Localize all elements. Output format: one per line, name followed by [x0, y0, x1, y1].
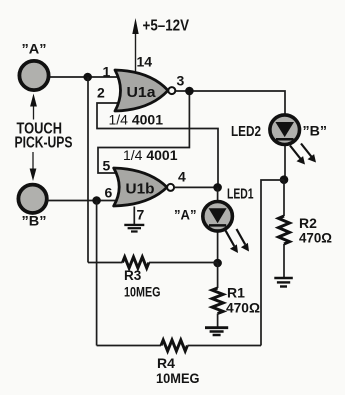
LED2: [231, 114, 327, 180]
svg-text:U1b: U1b: [126, 181, 155, 198]
output bubble U1b pin 4: [167, 184, 174, 191]
wire pin 4 output: [175, 186, 219, 188]
NOR gate U1a: [115, 70, 168, 111]
svg-text:”A”: ”A”: [22, 41, 47, 57]
node pin 4 / LED1 junction: [213, 183, 222, 192]
svg-text:7: 7: [137, 207, 145, 223]
svg-text:PICK-UPS: PICK-UPS: [15, 135, 73, 152]
ground (R1): [205, 328, 228, 335]
wire pin 7 to ground: [133, 207, 135, 225]
wire pin 6 from pickup B: [47, 200, 121, 202]
wire B vertical down to R4: [96, 201, 98, 346]
svg-text:1/4 4001: 1/4 4001: [123, 147, 178, 163]
resistor R4 10MEG: [97, 340, 261, 386]
svg-text:1/4 4001: 1/4 4001: [109, 112, 164, 128]
svg-text:”B”: ”B”: [303, 123, 328, 139]
svg-text:R3: R3: [124, 268, 142, 283]
node junction A: [83, 73, 92, 82]
node pin 3 junction: [185, 87, 194, 96]
svg-text:3: 3: [177, 73, 185, 89]
svg-text:4: 4: [178, 169, 186, 185]
svg-text:10MEG: 10MEG: [124, 285, 161, 300]
svg-text:”B”: ”B”: [22, 213, 47, 229]
svg-text:6: 6: [105, 185, 113, 201]
svg-text:470Ω: 470Ω: [226, 300, 260, 316]
ground (pin 7): [124, 225, 144, 232]
resistor R3 10MEG: [88, 257, 218, 300]
svg-text:5: 5: [103, 158, 111, 174]
svg-text:R1: R1: [227, 285, 245, 301]
wire cross-coupling pin3 to pin5: [98, 91, 189, 173]
LED1: [174, 187, 254, 264]
output bubble U1a pin 3: [168, 87, 175, 94]
svg-text:1: 1: [103, 64, 111, 80]
svg-text:10MEG: 10MEG: [156, 370, 200, 386]
label TOUCH PICK-UPS: [15, 121, 73, 152]
resistor R2 470 ohm: [279, 180, 333, 278]
ground (R2): [274, 278, 293, 287]
wire pin 2 feedback loop: [97, 103, 218, 187]
arrow up to pickup A: [30, 94, 37, 120]
svg-text:14: 14: [137, 54, 153, 70]
resistor R1 470 ohm: [212, 263, 260, 327]
node junction B: [92, 196, 101, 205]
svg-text:”A”: ”A”: [174, 207, 197, 223]
touch pickup B: [18, 185, 46, 229]
NOR gate U1b: [114, 168, 167, 206]
svg-text:470Ω: 470Ω: [299, 230, 332, 246]
touch pickup A: [19, 41, 48, 91]
svg-text:+5–12V: +5–12V: [143, 18, 190, 35]
power arrow +5-12V: [132, 18, 189, 72]
svg-text:R4: R4: [157, 355, 175, 371]
wire pin 3 output to LED2: [176, 91, 285, 114]
node R3 / R1 / LED1 junction: [213, 259, 222, 268]
arrow down to pickup B: [30, 152, 37, 181]
wire pin 1 from pickup A: [50, 76, 121, 78]
svg-text:LED2: LED2: [231, 124, 261, 140]
wire junction to R4 riser: [261, 180, 284, 346]
svg-text:2: 2: [97, 85, 105, 101]
svg-text:U1a: U1a: [127, 84, 157, 101]
node LED2 / R2 / R4 junction: [280, 175, 289, 184]
wire A vertical down to R3: [87, 77, 89, 263]
svg-text:LED1: LED1: [227, 187, 254, 203]
